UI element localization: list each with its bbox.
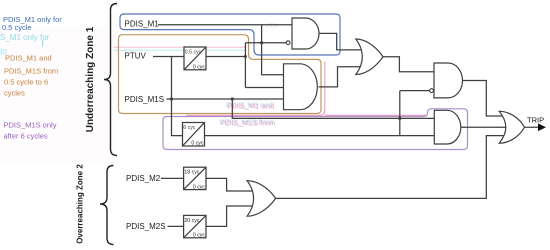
TRIP output arrow xyxy=(525,116,547,131)
ghost cyan tick xyxy=(42,40,44,47)
junction dot on PDIS_M1S at riser xyxy=(170,97,173,100)
svg-text:PDIS_M1S from: PDIS_M1S from xyxy=(4,67,58,76)
wire to AND U2 input 2 xyxy=(245,87,283,89)
svg-text:0 cyc: 0 cyc xyxy=(193,184,206,190)
svg-text:0 cyc: 0 cyc xyxy=(193,65,206,71)
brace zone 1 xyxy=(104,4,117,156)
svg-text:cycles: cycles xyxy=(4,89,25,98)
ghost cyan line near PTUV row xyxy=(114,49,247,51)
wire timer T1 output xyxy=(206,56,245,58)
OR gate U5 xyxy=(356,39,383,75)
wire OR U6 output to OR U7 input 3 xyxy=(276,136,505,199)
svg-text:PDIS_M1S only: PDIS_M1S only xyxy=(4,121,57,130)
wire PTUV to timer T1 xyxy=(153,56,184,58)
AND gate U2 xyxy=(284,64,318,110)
AND gate U4 xyxy=(434,110,461,144)
svg-text:PDIS_M1 and: PDIS_M1 and xyxy=(228,102,275,111)
svg-text:PDIS_M2S: PDIS_M2S xyxy=(126,222,166,231)
wire PDIS_M2S to timer T4 xyxy=(168,225,184,227)
OR gate U7 final trip xyxy=(499,111,524,143)
timer T1 box 0.5 cyc xyxy=(184,47,206,71)
annotation blue: PDIS_M1 only for 0.5 cycle xyxy=(2,15,62,32)
svg-text:PDI: PDI xyxy=(266,23,278,30)
svg-text:Underreaching Zone 1: Underreaching Zone 1 xyxy=(85,26,96,132)
wire PDIS_M1 to AND U1 xyxy=(158,24,292,26)
svg-text:PDIS_M1S from: PDIS_M1S from xyxy=(221,118,275,127)
wire AND U3 output to OR U7 input 1 xyxy=(463,81,506,117)
timer T2 box 6 cyc xyxy=(183,123,205,147)
svg-text:0.5 cyc: 0.5 cyc xyxy=(185,50,202,56)
svg-text:TRIP: TRIP xyxy=(527,116,544,125)
svg-text:20 cyc: 20 cyc xyxy=(184,218,199,224)
junction dot timer T1 output tee xyxy=(244,55,247,58)
AND gate U3 with inverted input xyxy=(430,63,463,98)
annotation purple: PDIS_M1S only after 6 cycles xyxy=(4,121,57,141)
svg-text:0 cyc: 0 cyc xyxy=(193,233,206,239)
svg-text:Overreaching Zone 2: Overreaching Zone 2 xyxy=(76,164,85,244)
orange zone box around PTUV, timer T1 and AND U2 xyxy=(119,35,322,114)
ghost pink line near PTUV row xyxy=(114,46,247,48)
wire timer T2 output to AND U4 input 2 xyxy=(205,135,435,137)
AND gate U1 with inverted input xyxy=(286,18,319,49)
OR gate U6 xyxy=(247,181,276,217)
svg-text:0.5 cycle: 0.5 cycle xyxy=(2,23,32,32)
svg-text:6 cyc: 6 cyc xyxy=(183,125,196,131)
svg-text:after 6 cycles: after 6 cycles xyxy=(4,132,48,141)
svg-text:PDIS_M2: PDIS_M2 xyxy=(126,174,161,183)
wire AND U1 output to OR U5 input 1 xyxy=(319,33,361,50)
wire AND U2 output to OR U5 input 2 xyxy=(319,67,362,87)
purple zone box around timer T2 and AND U4 xyxy=(163,109,468,150)
svg-text:0.5 cycle to 6: 0.5 cycle to 6 xyxy=(4,78,48,87)
wire to AND U1 inverted input xyxy=(245,42,286,44)
brace zone 2 xyxy=(100,166,114,245)
svg-text:PTUV: PTUV xyxy=(125,51,147,60)
wire branch down to timer T2 input xyxy=(172,57,183,136)
svg-text:PDIS_M1S: PDIS_M1S xyxy=(125,95,165,104)
faint page tint left margin xyxy=(0,26,116,162)
svg-text:PDIS_M1 and: PDIS_M1 and xyxy=(5,54,52,63)
wire PDIS_M1 branch down to AND U2 input 1 xyxy=(262,25,284,75)
wire AND U4 output to OR U7 input 2 xyxy=(461,126,506,128)
junction dot on AND U4 input wire xyxy=(398,117,401,120)
wire PDIS_M2 to timer T3 xyxy=(161,177,184,179)
annotation orange: PDIS_M1 and PDIS_M1S from 0.5 cycle to 6 cycles xyxy=(4,54,58,98)
wire PDIS_M1S branch down and right to AND U4 input 1 xyxy=(232,99,434,118)
wire timer T3 output to OR U6 input 1 xyxy=(206,178,253,191)
wire OR U5 output to AND U3 input 1 xyxy=(383,57,434,72)
junction dot on inverted input wire xyxy=(260,41,263,44)
wire riser to AND U3 inverted input xyxy=(400,91,430,136)
timer T3 box 18 cyc xyxy=(184,167,206,190)
svg-text:0 cyc: 0 cyc xyxy=(191,141,204,147)
svg-text:PDIS_M1: PDIS_M1 xyxy=(125,20,160,29)
timer T4 box 20 cyc xyxy=(184,215,206,238)
wire timer T4 output to OR U6 input 2 xyxy=(206,206,253,226)
wire timer T1 output vertical riser xyxy=(244,43,246,88)
wire PDIS_M1S to AND U2 input 3 xyxy=(167,98,284,100)
junction dot on PDIS_M1S at branch xyxy=(231,97,234,100)
svg-text:18 cyc: 18 cyc xyxy=(184,170,199,176)
blue zone box around PDIS_M1 and AND U1 xyxy=(120,14,340,55)
ghost pink outline (offset copy of orange zone box) xyxy=(186,62,426,116)
